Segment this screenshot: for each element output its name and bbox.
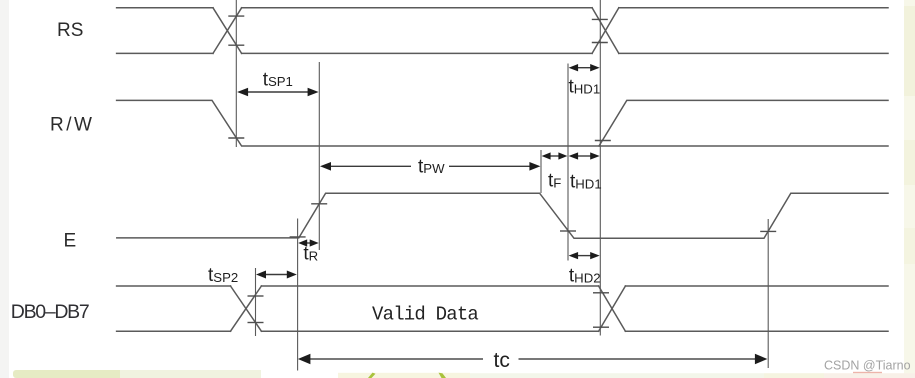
- guide tHD1 left / tF right: [567, 64, 569, 261]
- R/W rising edge: [599, 100, 888, 146]
- arrow tHD2: [576, 255, 592, 257]
- svg-text:R/W: R/W: [50, 114, 94, 135]
- DB bus high rail middle: [261, 285, 598, 287]
- RS crossover 1 rising leg: [213, 8, 242, 54]
- guide tSP1 right / tPW left: [318, 62, 320, 250]
- RS crossover 2 rising leg: [592, 8, 619, 54]
- arrow tSP1: [246, 91, 310, 93]
- DB bus high rail left: [117, 285, 231, 287]
- RS low rail middle: [242, 52, 592, 54]
- dimension arrows: [237, 64, 767, 364]
- signal RS low rail left: [117, 52, 213, 54]
- green paren mark 1: [368, 373, 376, 378]
- tick RS X2 upper: [592, 18, 608, 20]
- guide E second rise (long, to tc): [767, 219, 769, 368]
- bottom cream strip middle: [338, 373, 470, 378]
- tick DB X2 upper: [593, 292, 609, 294]
- tick E rise bottom: [290, 236, 306, 238]
- signal RS high rail left: [117, 7, 213, 9]
- tick R/W fall: [228, 137, 244, 139]
- DB bus high rail right: [625, 285, 888, 287]
- bottom pale pink strip right: [764, 373, 824, 378]
- arrow tF: [549, 155, 560, 157]
- DB crossover 1 rising leg: [231, 286, 262, 331]
- tick marks: [228, 16, 776, 327]
- signal R/W trace: [117, 100, 888, 146]
- RS high rail right: [619, 7, 888, 9]
- arrow tc: [308, 358, 756, 360]
- arrow tPW: [329, 165, 532, 167]
- tick E rise2: [760, 230, 776, 232]
- watermark red underline: [853, 372, 882, 374]
- arrow tSP2: [263, 274, 290, 276]
- DB crossover 2 falling leg: [599, 286, 626, 331]
- tick R/W rise: [595, 140, 611, 142]
- tick RS X1 lower: [228, 44, 244, 46]
- signal name labels: [50, 20, 94, 252]
- RS crossover 2 falling leg: [592, 8, 619, 54]
- guide at RS crossover 2 (long): [599, 0, 601, 336]
- green paren mark 2: [439, 373, 447, 378]
- svg-text:tc: tc: [494, 349, 510, 372]
- tick RS X2 lower: [592, 42, 608, 44]
- svg-text:RS: RS: [57, 20, 83, 41]
- signal E trace: [117, 193, 888, 238]
- arrow tR: [305, 242, 312, 244]
- tick DB X1 lower: [248, 322, 264, 324]
- guide at RS crossover 1: [235, 0, 237, 147]
- faint right page-edge band: [904, 0, 915, 378]
- tick E fall: [560, 230, 576, 232]
- svg-text:CSDN @Tiarno: CSDN @Tiarno: [824, 358, 911, 372]
- svg-text:Valid Data: Valid Data: [372, 304, 478, 326]
- vertical guide lines: [236, 0, 768, 371]
- DB bus low rail middle: [261, 330, 598, 332]
- bottom decorative highlight bar left: [13, 370, 131, 378]
- svg-text:DB0–DB7: DB0–DB7: [11, 301, 89, 323]
- guide DB crossover 1: [255, 268, 257, 336]
- tick DB X1 upper: [248, 295, 264, 297]
- arrow tHD1 top: [576, 67, 592, 69]
- tick DB X2 lower: [593, 326, 609, 328]
- tick RS X1 upper: [228, 15, 244, 17]
- guide E-rise (long, to tc): [297, 219, 299, 371]
- RS high rail middle: [242, 7, 592, 9]
- RS crossover 1 falling leg: [213, 8, 242, 54]
- arrow tHD1 lower: [576, 155, 592, 157]
- DB crossover 2 rising leg: [599, 286, 626, 331]
- DB bus low rail left: [117, 330, 231, 332]
- RS low rail right: [619, 52, 888, 54]
- timing labels: [208, 69, 602, 372]
- svg-text:E: E: [64, 230, 77, 251]
- guide tF left: [540, 150, 542, 193]
- bottom pale strip mid-right: [470, 373, 764, 378]
- faint left margin tint: [0, 0, 9, 378]
- DB bus low rail right: [625, 330, 888, 332]
- tick E rise top: [311, 203, 327, 205]
- DB crossover 1 falling leg: [231, 286, 262, 331]
